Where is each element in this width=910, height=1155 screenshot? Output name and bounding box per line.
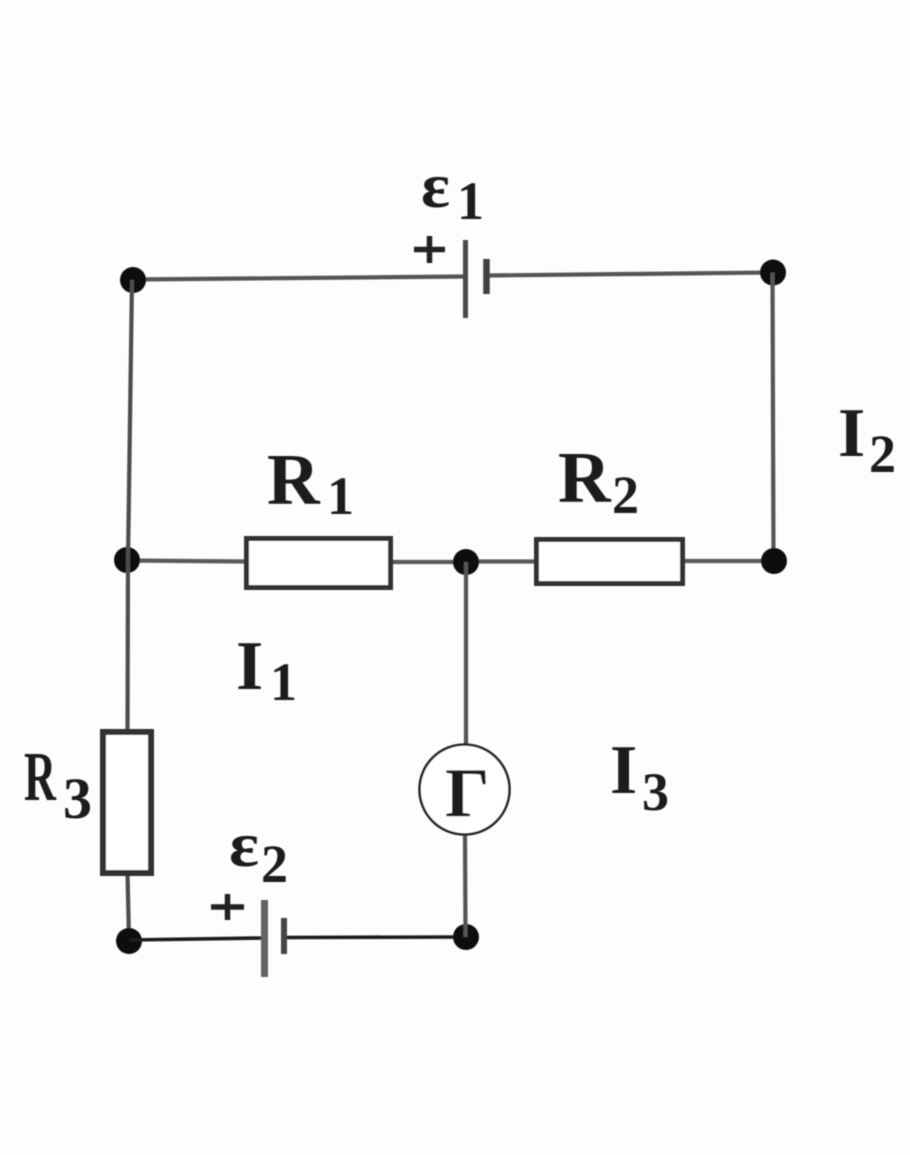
svg-text:R: R: [267, 439, 321, 520]
battery E1 long plate (+): [463, 240, 468, 318]
battery E2 short plate (-): [281, 918, 287, 954]
node F (bottom-left junction): [116, 928, 142, 954]
svg-text:1: 1: [327, 466, 354, 526]
svg-text:2: 2: [869, 424, 896, 484]
node C (middle-left junction): [114, 547, 140, 573]
wire top (left segment, node A to battery E1): [133, 277, 465, 280]
battery E1 short plate (-): [483, 259, 490, 294]
wire center vertical (galvanometer to node G): [463, 833, 468, 937]
svg-text:2: 2: [261, 834, 288, 894]
svg-text:Г: Г: [445, 755, 490, 832]
node A (top-left junction): [120, 267, 146, 293]
wire middle (node D to R2): [466, 559, 538, 563]
plus sign of E2: [211, 894, 244, 920]
battery E2 long plate (+): [261, 900, 268, 977]
svg-text:R: R: [558, 437, 612, 518]
svg-text:ε: ε: [421, 150, 450, 221]
svg-text:I: I: [838, 395, 865, 472]
svg-text:1: 1: [270, 652, 297, 712]
wire left rail lower (R3 to node F): [128, 872, 130, 941]
wire bottom (battery E2 to node G): [284, 935, 466, 939]
wire top (right segment, battery E1 to node B): [486, 273, 773, 276]
svg-text:3: 3: [642, 762, 669, 822]
wire middle (R2 to node E): [682, 559, 774, 563]
wire right rail (node B down to node E): [773, 273, 774, 562]
node G (bottom-center junction): [453, 924, 479, 950]
svg-text:1: 1: [457, 171, 484, 231]
wire center vertical (node D to galvanometer): [464, 562, 468, 746]
wire middle (node C to R1): [127, 561, 248, 562]
plus sign of E1: [414, 236, 445, 263]
svg-text:2: 2: [612, 465, 639, 525]
wire left rail (node C to R3): [125, 560, 130, 734]
svg-text:3: 3: [63, 766, 92, 831]
node D (middle-center junction): [453, 549, 479, 575]
galvanometer G (circle): [420, 745, 510, 835]
svg-text:ε: ε: [229, 809, 259, 880]
node B (top-right junction): [760, 260, 786, 286]
node E (middle-right junction): [761, 548, 787, 574]
resistor R2: [537, 540, 683, 584]
svg-text:R: R: [24, 739, 57, 816]
wire middle (R1 to node D): [390, 560, 466, 564]
svg-text:I: I: [236, 628, 263, 705]
wire bottom (node F to battery E2): [129, 938, 264, 940]
resistor R1: [247, 539, 391, 588]
wire left rail upper (node A to node C): [128, 280, 132, 560]
svg-text:I: I: [610, 732, 637, 809]
resistor R3: [103, 732, 151, 873]
